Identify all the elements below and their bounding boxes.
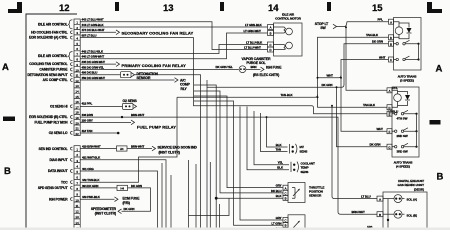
IAT sensor: [276, 143, 308, 154]
svg-text:C: C: [269, 43, 271, 47]
DEGR sol B: [383, 213, 394, 215]
svg-text:GRY: GRY: [276, 216, 282, 220]
svg-text:B: B: [437, 172, 444, 183]
svg-text:CONTROL MOTOR: CONTROL MOTOR: [275, 17, 302, 21]
svg-text:14: 14: [76, 221, 80, 225]
svg-text:2ND SW: 2ND SW: [397, 134, 408, 138]
auto trans 3 speed connector: [389, 18, 422, 83]
svg-text:BLK: BLK: [277, 166, 284, 170]
svg-text:H4: H4: [120, 186, 124, 190]
svg-text:SPEEDOMETER: SPEEDOMETER: [91, 207, 117, 211]
svg-text:B: B: [285, 224, 287, 228]
wire branch LT BLU to DEGR A: [332, 106, 377, 199]
svg-text:444 LT GRN-BLK: 444 LT GRN-BLK: [82, 23, 105, 27]
svg-text:SOL (B): SOL (B): [407, 213, 418, 217]
wire bottom jog near MAP: [189, 198, 230, 215]
svg-text:SW: SW: [320, 26, 326, 30]
svg-text:D: D: [388, 106, 390, 110]
svg-text:15: 15: [76, 95, 80, 99]
svg-text:DK GRN: DK GRN: [322, 83, 333, 87]
svg-text:A/C COMP CTRL: A/C COMP CTRL: [43, 78, 68, 82]
svg-text:442 LT BLU-BLK: 442 LT BLU-BLK: [82, 49, 104, 53]
grid ref box H4 on speedo wire: [117, 185, 128, 190]
svg-text:C: C: [284, 219, 286, 223]
svg-text:LT GRN-BLK: LT GRN-BLK: [245, 23, 263, 27]
svg-text:PPL: PPL: [378, 18, 384, 22]
svg-text:459 DK GRN-YEL: 459 DK GRN-YEL: [82, 65, 105, 69]
throttle position sensor: [271, 183, 324, 203]
svg-text:(F/B): (F/B): [123, 201, 130, 205]
trans2 3rd sw: [392, 146, 395, 148]
svg-text:O2 SENS LO: O2 SENS LO: [49, 131, 68, 135]
coolant temp sensor: [277, 161, 315, 174]
svg-text:COOLING FAN CONTROL: COOLING FAN CONTROL: [29, 62, 67, 66]
svg-text:SENSOR: SENSOR: [309, 194, 322, 198]
svg-text:E: E: [389, 112, 391, 116]
svg-text:C: C: [390, 58, 392, 62]
wire 459 DK GRN-WHT pin12 to AC comp relay: [80, 79, 174, 81]
svg-text:C: C: [284, 191, 286, 195]
svg-text:SERVICE ENG SOON IND: SERVICE ENG SOON IND: [158, 146, 198, 150]
svg-text:B: B: [285, 197, 287, 201]
svg-text:A: A: [2, 62, 9, 73]
wire 412 PPL pin17 to O2 sensor: [80, 106, 122, 108]
svg-text:CANISTER PURGE: CANISTER PURGE: [39, 68, 68, 72]
mid bundle riser offpage e: [206, 80, 208, 230]
svg-text:DK GRN: DK GRN: [370, 143, 381, 147]
mid bundle riser offpage g: [219, 204, 221, 230]
svg-text:440 LT GRN-WHT: 440 LT GRN-WHT: [82, 55, 105, 59]
svg-text:IDLE AIR CONTROL: IDLE AIR CONTROL: [38, 54, 68, 58]
svg-text:19: 19: [76, 116, 80, 120]
trans1 switch C: [394, 59, 397, 61]
svg-text:DK BLU: DK BLU: [271, 189, 281, 193]
svg-text:YEL: YEL: [278, 161, 284, 165]
svg-text:IDLE AIR CONTROL: IDLE AIR CONTROL: [38, 22, 68, 26]
detonation sensor: [121, 72, 159, 80]
svg-text:A: A: [390, 20, 392, 24]
bundle vertical to TPS BLK: [194, 85, 283, 198]
wire 394 DK GRN pin8 strip2 to speedometer: [80, 188, 150, 211]
svg-text:G: G: [388, 145, 390, 149]
svg-text:496 DK BLU: 496 DK BLU: [82, 71, 98, 75]
wire 335 DK GRN-WHT pin9 to primary cooling fan relay: [80, 63, 116, 65]
mid bundle riser offpage d: [195, 164, 197, 230]
svg-text:TCC: TCC: [61, 180, 68, 184]
wire 413 TAN pin22 stub: [80, 132, 117, 134]
mid bundle riser offpage b: [170, 175, 172, 230]
bundle vertical to coolant YEL: [254, 111, 289, 165]
svg-text:B: B: [390, 42, 392, 46]
wire 439 PNK-BLK pin10 strip2 to ECM fuse: [80, 198, 114, 200]
ECM pin function labels left column: [27, 22, 68, 201]
svg-text:ECM FUSE: ECM FUSE: [123, 196, 141, 200]
svg-text:13: 13: [76, 215, 80, 219]
svg-text:12: 12: [76, 210, 80, 214]
wire 419 BRN-WHT pin1 strip2 to SES indicator: [80, 148, 152, 150]
wire 436 BRN pin19 to DEGR sol B: [80, 117, 377, 214]
MAP sensor: [271, 215, 305, 233]
svg-text:DATA IN/OUT: DATA IN/OUT: [48, 169, 68, 173]
svg-text:A: A: [389, 89, 391, 93]
wire 444 LT GRN-BLK pin2 to IAC A: [80, 26, 267, 28]
wire 440 LT GRN-WHT pin8 to IAC B: [80, 33, 267, 59]
mid bundle riser offpage a: [161, 163, 163, 230]
IAC coil C-D: [274, 45, 286, 50]
grid tick 12/13: [115, 2, 119, 11]
trans2 TCC solenoid: [392, 90, 398, 107]
bundle vertical to IAT TAN: [261, 113, 288, 152]
wire TAN-BLK TCC feed riser: [177, 37, 389, 97]
trans1 switch B: [394, 43, 397, 45]
svg-text:16: 16: [76, 100, 80, 104]
svg-text:SENS: SENS: [301, 170, 309, 174]
svg-text:DIAG INPUT: DIAG INPUT: [49, 158, 67, 162]
svg-text:(INST CLSTR): (INST CLSTR): [159, 150, 180, 154]
brace idle air control rows 7-8: [68, 52, 73, 61]
DEGR sol A: [383, 198, 394, 200]
bundle vertical to TPS DK BLU: [194, 91, 283, 193]
wire detonation continuation down mid bundle: [135, 75, 201, 230]
svg-text:SECONDARY COOLING FAN RELAY: SECONDARY COOLING FAN RELAY: [122, 31, 194, 36]
page edge dash left: [3, 117, 15, 122]
svg-text:EGR SOLENOID (A) CTRL: EGR SOLENOID (A) CTRL: [29, 36, 67, 40]
svg-text:PRIMARY COOLING FAN RELAY: PRIMARY COOLING FAN RELAY: [122, 63, 187, 68]
svg-text:DK GRN: DK GRN: [372, 40, 383, 44]
wire DK GRN feed to auto trans B: [207, 44, 389, 88]
trans1 TCC solenoid: [394, 22, 400, 38]
svg-text:SPD SENS OUTPUT: SPD SENS OUTPUT: [38, 186, 68, 190]
svg-text:O2 SENS HI: O2 SENS HI: [50, 105, 68, 109]
svg-text:BRN-WHT: BRN-WHT: [131, 144, 145, 148]
auto trans 4 speed connector: [387, 87, 419, 169]
svg-text:12: 12: [76, 79, 80, 83]
svg-text:15: 15: [372, 3, 383, 14]
grid tick 13/14: [220, 2, 224, 11]
connector strip 2 pin numbers: [76, 148, 80, 231]
wire WHT feed to auto trans C: [318, 60, 389, 78]
svg-text:BRN-WHT: BRN-WHT: [352, 210, 366, 214]
svg-text:(DEGR): (DEGR): [414, 187, 424, 191]
grid ref box H4 on SES wire: [117, 146, 128, 151]
svg-text:TAN-BLK: TAN-BLK: [366, 33, 379, 37]
svg-text:432 TAN-BLK: 432 TAN-BLK: [82, 178, 100, 182]
svg-text:EGR SOLENOID (B) CTRL: EGR SOLENOID (B) CTRL: [29, 115, 67, 119]
wire 459 DK GRN-YEL pin10 to vapor canister purge sol: [80, 68, 239, 70]
svg-text:WHT: WHT: [379, 55, 386, 59]
wire 432 TAN-BLK pin7 strip2 TCC riser: [80, 97, 177, 182]
svg-text:DK GRN-YEL: DK GRN-YEL: [216, 65, 234, 69]
svg-text:LT GRN: LT GRN: [271, 221, 281, 225]
svg-text:BRN-WHT: BRN-WHT: [131, 113, 145, 117]
svg-text:421 WHT-BLK: 421 WHT-BLK: [82, 156, 101, 160]
svg-text:O2 SENS: O2 SENS: [123, 99, 138, 103]
vapor canister purge solenoid: [239, 57, 271, 73]
svg-text:F: F: [389, 130, 391, 134]
svg-text:13: 13: [76, 84, 80, 88]
svg-text:443 LT BLU-WHT: 443 LT BLU-WHT: [82, 18, 104, 22]
svg-text:A: A: [285, 186, 287, 190]
svg-text:TAN-BLK: TAN-BLK: [281, 93, 294, 97]
mid bundle riser offpage f: [209, 162, 211, 230]
svg-text:LT GRN-WHT: LT GRN-WHT: [244, 29, 262, 33]
svg-text:10: 10: [76, 68, 80, 72]
svg-text:D: D: [269, 48, 271, 52]
idle air control motor: [268, 23, 303, 56]
svg-text:LT BLU: LT BLU: [361, 194, 371, 198]
svg-text:13: 13: [163, 3, 174, 14]
svg-text:DK GRN: DK GRN: [131, 184, 142, 188]
svg-text:B: B: [270, 32, 272, 36]
wire 443 LT BLU-WHT pin1 to IAC D: [80, 22, 267, 50]
svg-text:(RS ELEC CNTR): (RS ELEC CNTR): [253, 73, 279, 77]
svg-text:FUEL PUMP RELAY: FUEL PUMP RELAY: [137, 124, 176, 129]
svg-text:394 DK GRN: 394 DK GRN: [82, 184, 98, 188]
wire 496 DK BLU pin11 to detonation sensor: [80, 74, 120, 76]
svg-text:20: 20: [76, 121, 80, 125]
O2 sensor: [123, 99, 138, 110]
grid tick 14/15: [327, 2, 331, 11]
wire MAP BLK offpage: [282, 229, 284, 231]
svg-text:439 PNK-BLK: 439 PNK-BLK: [82, 195, 101, 199]
svg-text:18: 18: [76, 111, 80, 115]
brace idle air control rows 1-2: [68, 20, 73, 29]
bottom page edge shade: [0, 228, 450, 231]
svg-text:(3 SPEED): (3 SPEED): [400, 79, 414, 83]
svg-text:HD COOLING FAN CTRL: HD COOLING FAN CTRL: [31, 30, 67, 34]
svg-text:401 ORG: 401 ORG: [82, 167, 94, 171]
svg-text:436 BRN: 436 BRN: [82, 113, 93, 117]
svg-text:RLY: RLY: [181, 87, 188, 91]
DEGR common return: [387, 199, 389, 230]
svg-text:10: 10: [76, 198, 80, 202]
svg-text:697 LT BLU: 697 LT BLU: [82, 34, 97, 38]
svg-text:BLK: BLK: [276, 194, 283, 198]
bundle vertical to MAP GRY: [240, 107, 283, 221]
wire PPL from stop lt sw to auto trans A terminals: [337, 22, 389, 27]
svg-text:TAN: TAN: [276, 147, 282, 151]
svg-text:413 TAN: 413 TAN: [82, 129, 93, 133]
bundle vertical to coolant BLK: [247, 107, 289, 170]
svg-text:412 PPL: 412 PPL: [82, 102, 93, 106]
svg-text:DK GRN: DK GRN: [124, 207, 135, 211]
wire 401 ORG pin5 strip2 down offpage: [80, 171, 157, 230]
svg-text:A: A: [436, 64, 443, 75]
wire 421 WHT-BLK pin3 strip2 down offpage: [80, 160, 166, 230]
svg-text:GRY: GRY: [276, 184, 282, 188]
svg-text:B: B: [379, 213, 381, 217]
svg-text:22: 22: [76, 132, 80, 136]
svg-text:SENS: SENS: [300, 149, 308, 153]
bundle vertical to TPS GRY: [194, 96, 283, 188]
bundle vertical to MAP LT GRN: [194, 101, 283, 225]
svg-text:SES IND CONTROL: SES IND CONTROL: [39, 147, 68, 151]
svg-text:(INST CLSTR): (INST CLSTR): [95, 212, 116, 216]
wire 697 LT BLU pin4 to DEGR sol A and auto trans 4spd: [80, 38, 387, 114]
svg-text:BRN: BRN: [251, 65, 257, 69]
svg-text:LT BLU-WHT: LT BLU-WHT: [244, 45, 261, 49]
svg-text:BLK: BLK: [276, 143, 283, 147]
svg-text:12: 12: [59, 3, 70, 14]
svg-text:14: 14: [268, 3, 279, 14]
corner mark top-right: [427, 2, 442, 13]
svg-text:WHT: WHT: [377, 127, 384, 131]
svg-text:120 GRY: 120 GRY: [82, 118, 93, 122]
ECM box outline: [26, 14, 77, 230]
small row braces: [70, 31, 72, 201]
mid bundle riser offpage c: [188, 160, 190, 230]
DEGR connector: [377, 192, 427, 230]
svg-text:WHT: WHT: [327, 74, 334, 78]
wire 442 LT BLU-BLK pin7 to IAC C: [80, 45, 267, 54]
trans2 2nd sw: [392, 130, 395, 132]
ECM connector strip 1 outline: [74, 19, 80, 136]
svg-text:17: 17: [76, 105, 80, 109]
svg-text:D: D: [390, 36, 392, 40]
svg-text:IGN POWER: IGN POWER: [49, 197, 68, 201]
svg-text:3RD SW: 3RD SW: [397, 149, 408, 153]
svg-text:4TH SW: 4TH SW: [397, 116, 408, 120]
trans2 4th sw: [392, 113, 395, 115]
corner mark top-left: [8, 2, 22, 13]
svg-text:11: 11: [76, 204, 79, 208]
svg-text:IGN FUSE: IGN FUSE: [266, 65, 282, 69]
svg-text:A: A: [379, 197, 381, 201]
svg-text:21: 21: [76, 127, 80, 131]
svg-text:TAN-BLK: TAN-BLK: [363, 103, 376, 107]
svg-text:(4 SPEED): (4 SPEED): [396, 165, 410, 169]
svg-text:SENSOR: SENSOR: [137, 76, 151, 80]
svg-text:419 BRN-WHT: 419 BRN-WHT: [82, 144, 101, 148]
page edge dash right: [430, 120, 441, 125]
svg-text:11: 11: [76, 74, 79, 78]
svg-text:SOL (A): SOL (A): [407, 198, 418, 202]
svg-text:459 DK GRN-WHT: 459 DK GRN-WHT: [82, 76, 106, 80]
svg-text:473 DK BLU-WHT: 473 DK BLU-WHT: [82, 28, 105, 32]
IAC coil A-B: [274, 27, 286, 33]
svg-text:DETONATION SENS INPUT: DETONATION SENS INPUT: [27, 73, 67, 77]
svg-text:14: 14: [76, 90, 80, 94]
wire 120 GRY pin20 to fuel pump relay: [80, 121, 131, 123]
svg-text:A: A: [270, 26, 272, 30]
svg-text:FUEL PUMP RLY MON: FUEL PUMP RLY MON: [35, 121, 69, 125]
wire 473 DK BLU-WHT pin3 to secondary cooling fan relay: [80, 31, 116, 33]
ECM connector strip 2 outline: [74, 146, 80, 231]
connector strip 1 pin numbers: [76, 21, 80, 136]
svg-text:H4: H4: [120, 147, 124, 151]
wire BRN vapor sol to ign fuse: [246, 68, 261, 70]
bundle vertical to IAT BLK: [267, 117, 288, 147]
svg-text:LT BLU-BLK: LT BLU-BLK: [246, 40, 263, 44]
svg-text:B: B: [4, 166, 11, 177]
svg-text:335 DK GRN-WHT: 335 DK GRN-WHT: [82, 60, 106, 64]
